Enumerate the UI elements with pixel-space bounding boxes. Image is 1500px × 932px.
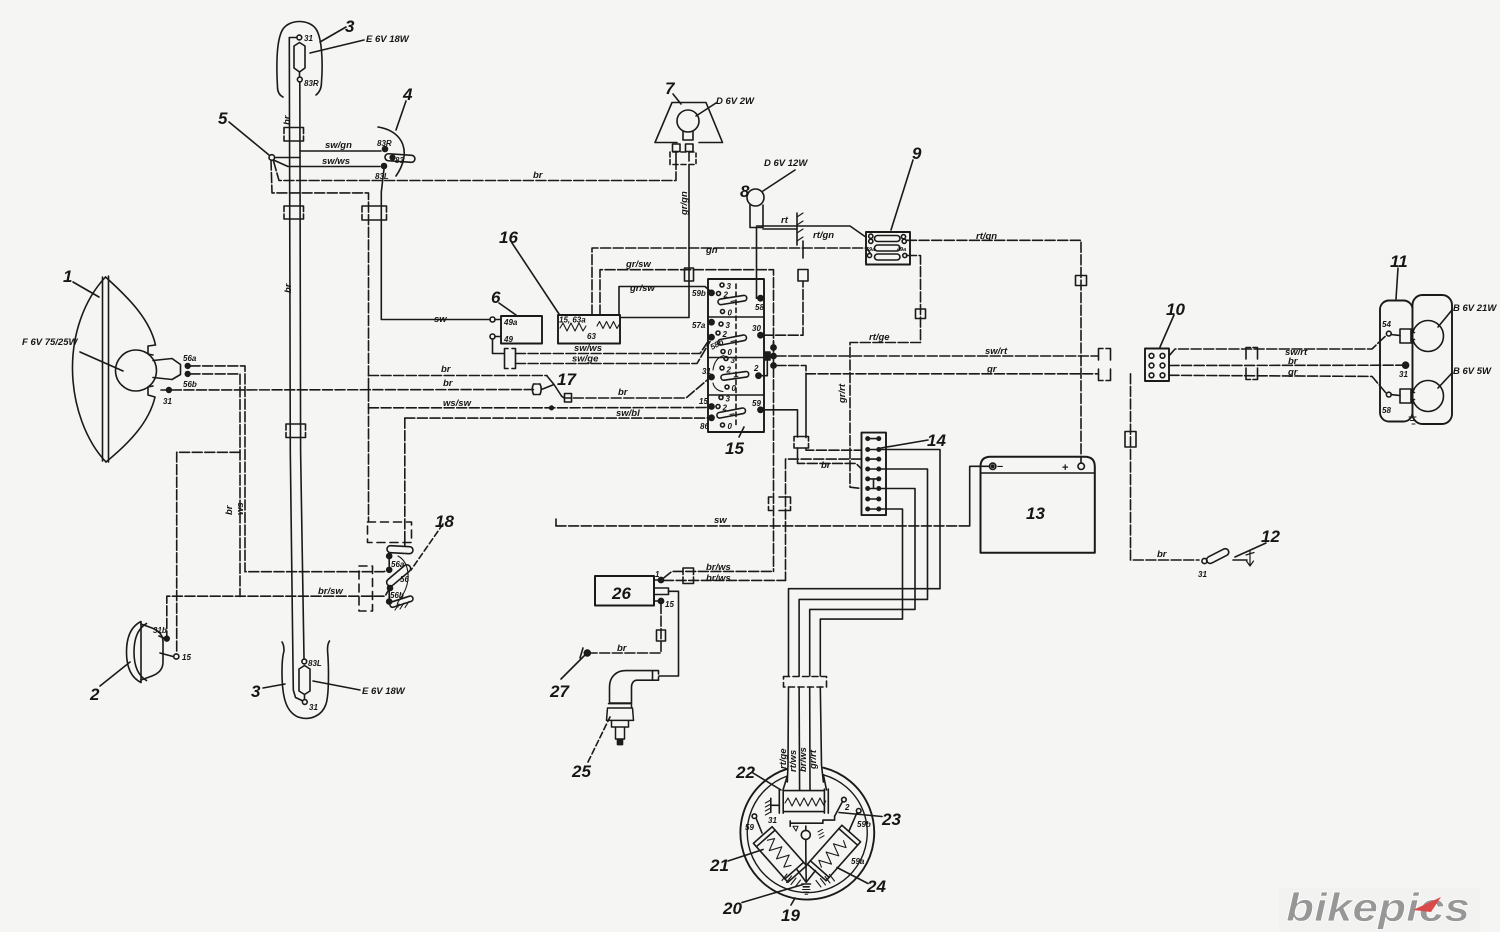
flywheel inner rim bbox=[747, 775, 867, 893]
leader label 3 top bbox=[320, 27, 346, 42]
svg-text:22: 22 bbox=[735, 763, 755, 782]
spark plug body bbox=[607, 704, 634, 745]
svg-text:br: br bbox=[283, 282, 294, 293]
switch15 row2 contact capsule bbox=[717, 335, 747, 346]
svg-text:gr: gr bbox=[1287, 367, 1299, 378]
svg-text:86: 86 bbox=[700, 422, 709, 431]
lamp 7 lug right bbox=[686, 144, 694, 152]
svg-text:bikepics: bikepics bbox=[1286, 886, 1470, 930]
condenser 20 bbox=[802, 884, 811, 894]
svg-text:1: 1 bbox=[655, 570, 660, 579]
svg-text:63: 63 bbox=[587, 332, 596, 341]
connector C10 on gr/gn bbox=[685, 268, 694, 281]
flasher 9 element bars bbox=[875, 236, 901, 242]
wire 56b to horn 15 bbox=[190, 374, 240, 597]
svg-text:14: 14 bbox=[927, 431, 946, 450]
wire gr/sw lower box16 to 59b bbox=[619, 287, 710, 316]
tail bulb1 21W bbox=[1400, 321, 1444, 352]
switch 18 ground bar hatched bbox=[389, 595, 414, 610]
svg-text:25: 25 bbox=[571, 762, 591, 781]
leader label E6V18W bottom bbox=[313, 681, 360, 690]
svg-text:31: 31 bbox=[163, 397, 172, 406]
connector pair C3 bbox=[362, 206, 387, 220]
svg-text:0: 0 bbox=[728, 309, 733, 318]
wire 59 to connector down bbox=[763, 410, 798, 437]
svg-text:8: 8 bbox=[740, 182, 750, 201]
wire headlight 31 br bbox=[171, 389, 533, 392]
svg-text:sw: sw bbox=[714, 515, 727, 526]
svg-text:br: br bbox=[1288, 356, 1299, 367]
component 6 box bbox=[501, 316, 542, 344]
svg-text:sw/ws: sw/ws bbox=[322, 156, 350, 167]
horn terminal 31b bbox=[159, 636, 164, 638]
svg-text:58: 58 bbox=[1382, 406, 1391, 415]
svg-text:sw/bl: sw/bl bbox=[616, 408, 640, 419]
svg-text:3: 3 bbox=[345, 17, 355, 36]
magneto terminal 59b bbox=[856, 809, 861, 814]
connector pair C4 bbox=[286, 424, 306, 438]
wire 31 down-left long vertical bbox=[289, 38, 302, 701]
svg-text:83: 83 bbox=[395, 156, 404, 165]
headlight terminal 31 bbox=[167, 388, 172, 393]
wire vertical x404.8 down to switch18 bbox=[404, 418, 406, 540]
connector C15 pair bbox=[1099, 349, 1111, 381]
junction 5 splice bbox=[269, 155, 275, 161]
wire coil15 down to junction27 bbox=[590, 604, 661, 654]
horn 2 body bbox=[127, 622, 142, 683]
svg-text:59a: 59a bbox=[851, 857, 865, 866]
coil 26 wire br/ws upper bbox=[663, 571, 774, 578]
lighting coil 21 bbox=[753, 827, 806, 883]
svg-text:br: br bbox=[441, 364, 452, 375]
svg-text:4: 4 bbox=[402, 85, 413, 104]
svg-text:58: 58 bbox=[755, 303, 764, 312]
svg-text:11: 11 bbox=[1390, 252, 1408, 271]
wire gr/sw upper box16 to cluster bbox=[600, 270, 774, 345]
breaker to condenser link bbox=[805, 826, 807, 882]
riser br/ws lower from strip14 row3 bbox=[786, 459, 862, 580]
svg-text:br: br bbox=[1157, 549, 1168, 560]
svg-text:31: 31 bbox=[304, 34, 313, 43]
svg-text:B 6V 21W: B 6V 21W bbox=[1453, 303, 1497, 314]
bundle wires grommet to flywheel bbox=[787, 687, 788, 782]
switch15 row3 terminal 31 bbox=[709, 374, 714, 379]
generator coil 22 bbox=[779, 789, 828, 813]
switch15 row4 contact capsule bbox=[716, 408, 746, 419]
connector C14 bbox=[798, 270, 808, 282]
brake switch 12 terminal 31 bbox=[1202, 558, 1207, 563]
bundle path row6 bbox=[810, 489, 915, 677]
svg-text:gr: gr bbox=[986, 364, 998, 375]
connector C6 bbox=[505, 349, 516, 369]
svg-text:15: 15 bbox=[725, 439, 744, 458]
connector block 10 bbox=[1145, 349, 1169, 382]
svg-text:3: 3 bbox=[726, 395, 731, 404]
svg-text:23: 23 bbox=[881, 810, 901, 829]
switch15 row4 terminal 59 bbox=[758, 407, 763, 412]
lamp 7 housing bbox=[490, 94, 1452, 905]
ignition coil 26 box bbox=[595, 576, 654, 606]
tail terminal 54 bbox=[1386, 331, 1391, 336]
svg-text:31: 31 bbox=[309, 703, 318, 712]
svg-text:56a: 56a bbox=[183, 354, 197, 363]
svg-text:br: br bbox=[821, 460, 832, 471]
tail terminal 58 bbox=[1386, 392, 1391, 397]
headlight bulb bbox=[116, 350, 157, 391]
connector C20 bbox=[657, 630, 666, 641]
wire sw from switch4 83L down to box6 49a bbox=[381, 169, 490, 320]
svg-text:br/ws: br/ws bbox=[706, 562, 731, 573]
svg-text:56b: 56b bbox=[183, 380, 197, 389]
svg-text:56a: 56a bbox=[391, 560, 405, 569]
svg-text:B 6V 5W: B 6V 5W bbox=[1453, 366, 1492, 377]
terminal strip 14 box bbox=[862, 433, 887, 515]
connector C7 on br-2 bbox=[532, 384, 541, 395]
svg-text:br: br bbox=[224, 504, 235, 515]
resistor 16 zigzag left bbox=[560, 323, 586, 331]
svg-text:56: 56 bbox=[400, 575, 409, 584]
svg-text:2: 2 bbox=[722, 330, 728, 339]
svg-text:ws: ws bbox=[235, 502, 246, 515]
svg-text:0: 0 bbox=[732, 384, 737, 393]
svg-text:E 6V 18W: E 6V 18W bbox=[362, 686, 406, 697]
contact breaker 23 bbox=[790, 816, 834, 839]
switch 18 terminal 56a bbox=[387, 554, 392, 559]
tail ground hatch bbox=[1409, 406, 1416, 424]
lamp3 top terminal 31 bbox=[297, 35, 302, 40]
spark plug cap 25 bbox=[610, 671, 659, 703]
leader label 21 bbox=[728, 850, 763, 862]
svg-text:31: 31 bbox=[1198, 570, 1207, 579]
wire gr branch down to switch 12 bbox=[1131, 374, 1200, 560]
svg-text:br: br bbox=[618, 387, 629, 398]
switch15 row dividers bbox=[708, 317, 764, 395]
svg-text:18: 18 bbox=[435, 512, 454, 531]
wire rt/ge flasher to strip14 row6 bbox=[850, 256, 921, 489]
switch15 row4 terminal 86 bbox=[709, 415, 714, 420]
wire from junction5 down to sw/ws-vertical bbox=[271, 160, 369, 522]
connector C8 square on br-3 bbox=[565, 394, 572, 403]
leader label 22 bbox=[753, 773, 781, 790]
battery 13 box bbox=[981, 457, 1095, 553]
resistor 16 zigzag right bbox=[597, 322, 620, 329]
wire gr/gn lamp7 to box16 bbox=[620, 165, 689, 318]
svg-text:7: 7 bbox=[665, 79, 676, 98]
headlight terminal 56a bbox=[185, 364, 190, 369]
dashed box D2 tall bbox=[359, 566, 373, 611]
leader label 2 bbox=[100, 662, 130, 686]
switch15 row1 positions bbox=[720, 283, 724, 287]
svg-text:D 6V 12W: D 6V 12W bbox=[764, 158, 808, 169]
wire sw/ws to 83L bbox=[274, 160, 381, 167]
svg-text:D 6V 2W: D 6V 2W bbox=[716, 96, 755, 107]
junction 17 splice bbox=[542, 376, 562, 396]
wire gn from box16 to flasher bbox=[592, 248, 870, 315]
wire switch-2 to cluster blob bbox=[761, 356, 771, 376]
wire gr from cluster area bbox=[776, 366, 1098, 374]
svg-text:59b: 59b bbox=[857, 820, 871, 829]
svg-text:6: 6 bbox=[491, 288, 501, 307]
svg-text:gn: gn bbox=[705, 245, 718, 256]
coil 21 ground hatch bbox=[782, 874, 801, 887]
lamp 8 bulb bbox=[747, 189, 764, 206]
svg-text:59: 59 bbox=[752, 399, 761, 408]
svg-text:sw/ge: sw/ge bbox=[572, 354, 599, 365]
headlight H1 reflector vesica bbox=[72, 277, 106, 462]
connector C19 bbox=[683, 568, 694, 584]
connector C16 pair bbox=[1246, 348, 1258, 380]
resistor box 16 bbox=[558, 315, 620, 344]
leader label 24 bbox=[837, 868, 868, 884]
svg-text:49: 49 bbox=[503, 335, 513, 344]
svg-text:56b: 56b bbox=[390, 591, 404, 600]
svg-text:17: 17 bbox=[557, 370, 577, 389]
lamp3 top terminal 83R bbox=[297, 77, 302, 82]
tail light 11 small housing bbox=[1380, 301, 1413, 422]
svg-text:E 6V 18W: E 6V 18W bbox=[366, 34, 410, 45]
svg-text:21: 21 bbox=[709, 856, 729, 875]
battery plus terminal bbox=[1078, 463, 1084, 469]
svg-text:24: 24 bbox=[866, 877, 886, 896]
svg-text:54: 54 bbox=[1382, 320, 1391, 329]
switch15 row3 arc bbox=[713, 356, 724, 392]
leader label F6V75/25W bbox=[80, 352, 123, 371]
wire sw/rt right of 10 bbox=[1169, 336, 1386, 356]
grommet connector C21 bbox=[784, 677, 827, 688]
leader label 11 bbox=[1396, 268, 1398, 299]
svg-text:br: br bbox=[617, 643, 628, 654]
component 6 terminal 49 bbox=[490, 334, 495, 339]
coil HT nub bbox=[654, 588, 669, 595]
strip14 row links bbox=[868, 439, 879, 509]
tail bulb2 5W bbox=[1400, 381, 1444, 412]
wire lamp8 down to switch15 58 + rt branch bbox=[757, 228, 761, 299]
lamp3 bottom terminal 31 bbox=[302, 700, 307, 705]
magneto terminal 2 bbox=[842, 797, 847, 802]
coil 26 wire br/ws lower bbox=[664, 579, 786, 581]
svg-text:83L: 83L bbox=[308, 659, 322, 668]
wire br-1 from vertical to junction 17 bbox=[369, 375, 548, 377]
svg-text:59b: 59b bbox=[692, 289, 706, 298]
flywheel magneto 19 outer rim bbox=[740, 768, 874, 900]
svg-text:br: br bbox=[282, 114, 293, 125]
wire sw/ws to switch15 57a bbox=[516, 339, 711, 354]
brake switch 12 lever bbox=[1205, 547, 1230, 564]
svg-text:2: 2 bbox=[726, 366, 732, 375]
switch15 center dashed link bbox=[735, 284, 737, 428]
svg-text:49a: 49a bbox=[896, 247, 906, 253]
lamp 3 bottom bulb bbox=[299, 666, 310, 695]
wire sw/rt from cluster bbox=[776, 355, 1098, 357]
svg-text:49a: 49a bbox=[503, 318, 518, 327]
leader label 8 and D6V12W bbox=[763, 170, 795, 191]
wire 83R long vertical bbox=[300, 82, 304, 658]
svg-text:31b: 31b bbox=[153, 626, 167, 635]
headlight lens lines bbox=[102, 277, 104, 461]
switch 18 ground terminal bbox=[387, 599, 392, 604]
svg-text:ws/sw: ws/sw bbox=[443, 398, 472, 409]
lighting coil 24 bbox=[807, 825, 860, 881]
svg-text:15: 15 bbox=[699, 397, 708, 406]
leader label 16 bbox=[512, 243, 559, 314]
coil terminal 15 bbox=[658, 598, 663, 603]
leader label 20 bbox=[742, 885, 803, 903]
svg-text:gr/sw: gr/sw bbox=[629, 283, 655, 294]
leader label 6 bbox=[499, 303, 516, 315]
switch15 row2 terminal 58b bbox=[709, 335, 714, 340]
leader label 3 bottom bbox=[263, 684, 285, 688]
brake switch 12 ground bbox=[1233, 551, 1254, 566]
svg-text:27: 27 bbox=[549, 682, 570, 701]
svg-text:rt/gn: rt/gn bbox=[976, 231, 997, 242]
switch 18 lever capsule bbox=[385, 563, 412, 587]
svg-text:57a: 57a bbox=[692, 321, 706, 330]
switch 4 housing arc bbox=[378, 127, 404, 176]
headlight terminal 56b bbox=[185, 372, 190, 377]
svg-text:3: 3 bbox=[731, 356, 736, 365]
switch15 row3 terminal 2 bbox=[756, 373, 761, 378]
leader label 25 spark plug bbox=[588, 717, 610, 762]
bikepics watermark bbox=[1279, 886, 1480, 932]
lamp3 bottom terminal 83L bbox=[302, 659, 307, 664]
lamp 3 top envelope bbox=[277, 22, 322, 98]
svg-text:gr/rt: gr/rt bbox=[837, 383, 848, 404]
svg-text:16: 16 bbox=[499, 228, 518, 247]
wire 58 up (lamp8) bbox=[757, 297, 761, 299]
leader label 10 bbox=[1160, 315, 1174, 347]
switch 4 terminal 83R bbox=[383, 147, 388, 152]
coil HT wire to plug cap bbox=[659, 591, 679, 676]
svg-text:83R: 83R bbox=[304, 79, 319, 88]
wire ws/sw to switch15 bbox=[369, 407, 711, 408]
switch 4 lever capsule bbox=[385, 154, 415, 163]
channel inner stubs bbox=[783, 775, 827, 790]
switch15 row3 positions bbox=[724, 357, 728, 361]
bundle path row4 bbox=[799, 469, 927, 676]
wire br junction5 to lamp7 bbox=[274, 161, 677, 181]
svg-text:10: 10 bbox=[1166, 300, 1185, 319]
svg-text:sw: sw bbox=[434, 314, 447, 325]
leader B6V21W bbox=[1438, 310, 1452, 327]
wire sw/ge to switch15 58b bbox=[516, 342, 711, 364]
svg-text:15: 15 bbox=[665, 600, 674, 609]
leader label 7 bbox=[673, 94, 681, 104]
bundle path row2 outermost bbox=[789, 450, 941, 677]
V links to condenser bbox=[797, 870, 815, 882]
switch15 row2 positions bbox=[719, 322, 723, 326]
riser vertical cluster to coil br-ws upper bbox=[773, 342, 775, 571]
wire rt/gn flasher right to battery plus bbox=[907, 240, 1082, 463]
svg-text:+: + bbox=[1062, 462, 1068, 474]
flasher relay 9 box bbox=[866, 232, 910, 265]
wire sw/bl to switch15 86 bbox=[405, 417, 710, 420]
bundle path row8 bbox=[820, 509, 902, 676]
wire 49 down to sw/ws line bbox=[493, 339, 505, 354]
wire 56a to dimmer bbox=[190, 366, 389, 572]
strip14 terminals 8 rows bbox=[865, 436, 881, 511]
svg-text:13: 13 bbox=[1026, 504, 1045, 523]
svg-text:5: 5 bbox=[218, 109, 228, 128]
svg-text:9: 9 bbox=[912, 144, 922, 163]
lamp 7 lug left bbox=[673, 144, 681, 152]
svg-text:31: 31 bbox=[1399, 370, 1408, 379]
switch15 row3 contact capsule bbox=[721, 371, 750, 380]
connector C13 bbox=[916, 309, 926, 319]
svg-text:–: – bbox=[997, 461, 1003, 473]
leader label 12 bbox=[1235, 543, 1266, 557]
connector pair C1 bbox=[284, 128, 304, 142]
curve switch18 body bbox=[397, 556, 408, 607]
svg-text:20: 20 bbox=[722, 899, 742, 918]
svg-text:br: br bbox=[443, 378, 454, 389]
svg-text:br/sw: br/sw bbox=[318, 586, 343, 597]
svg-text:2: 2 bbox=[753, 364, 759, 373]
svg-text:31: 31 bbox=[768, 816, 777, 825]
wire gr-drop to strip14 row2 bbox=[805, 374, 807, 438]
wire br/sw horn 31b to switch18 bbox=[167, 589, 390, 642]
svg-text:15: 15 bbox=[182, 653, 191, 662]
svg-text:12: 12 bbox=[1261, 527, 1280, 546]
leader label 9 bbox=[891, 160, 913, 230]
coil terminal 1 bbox=[658, 577, 663, 582]
wire sw long bbox=[556, 525, 970, 527]
wire gr right of 10 bbox=[1169, 375, 1386, 393]
switch 4 terminal 83L bbox=[382, 164, 387, 169]
battery minus wire to sw bbox=[970, 466, 990, 526]
junction cluster dots bbox=[771, 345, 776, 350]
leader label 1 bbox=[73, 282, 99, 297]
svg-text:19: 19 bbox=[781, 906, 800, 925]
component 6 terminal 49a bbox=[490, 317, 495, 322]
battery minus terminal bbox=[990, 463, 996, 469]
wire br-3 17 to switch15 31 bbox=[562, 379, 710, 399]
switch15 row1 terminal 59b bbox=[709, 290, 714, 295]
connector pair C2 bbox=[284, 206, 304, 219]
flasher 9 terminals bbox=[869, 234, 873, 238]
switch15 row1 terminal 58 bbox=[758, 296, 763, 301]
switch15 row4 positions bbox=[719, 396, 723, 400]
switch 18 terminal 56 bbox=[387, 567, 392, 572]
connector C18 bbox=[1125, 432, 1136, 448]
svg-text:59: 59 bbox=[745, 823, 754, 832]
switch15 row1 contact capsule bbox=[718, 295, 748, 305]
connector C24 on risers bbox=[769, 497, 791, 511]
svg-text:15, 63a: 15, 63a bbox=[559, 316, 586, 325]
tail terminal 31 ring bbox=[1403, 362, 1409, 368]
leader label 5 bbox=[229, 122, 269, 155]
svg-text:gr/gn: gr/gn bbox=[679, 191, 690, 216]
tail light 11 big housing bbox=[1413, 295, 1453, 424]
svg-text:83L: 83L bbox=[375, 172, 389, 181]
svg-text:26: 26 bbox=[611, 584, 631, 603]
connector C11 lamp7 bbox=[670, 152, 696, 165]
connector C12 bbox=[1076, 276, 1087, 286]
svg-text:rt/ge: rt/ge bbox=[869, 332, 890, 343]
svg-text:2: 2 bbox=[89, 685, 100, 704]
leader label 18 bbox=[411, 524, 443, 570]
horn terminal 15 bbox=[160, 653, 173, 657]
battery top band bbox=[981, 472, 1095, 474]
svg-text:3: 3 bbox=[251, 682, 261, 701]
magneto terminal 59 bbox=[752, 814, 757, 819]
wire sw/gn to 83R switch4 bbox=[300, 150, 381, 152]
switch 18 terminal 56b bbox=[388, 586, 393, 591]
lamp 7 bulb bbox=[677, 110, 699, 132]
lamp 8 ground bbox=[763, 228, 797, 230]
svg-text:2: 2 bbox=[722, 404, 728, 413]
leader label 27 bbox=[561, 655, 585, 679]
leader label 23 bbox=[839, 813, 882, 817]
